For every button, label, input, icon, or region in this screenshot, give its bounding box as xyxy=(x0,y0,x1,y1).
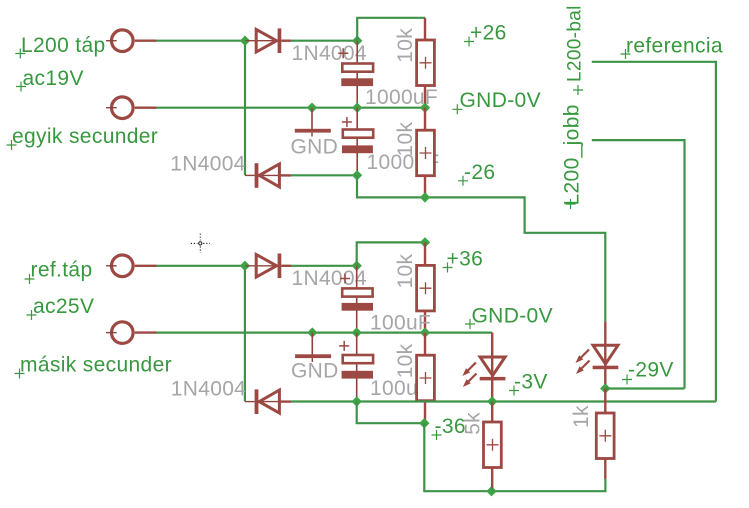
wire top rail (to R1) xyxy=(357,18,425,41)
wire row A right xyxy=(291,40,357,42)
node B1 junction (GND stem) xyxy=(307,103,317,113)
svg-text:10k: 10k xyxy=(394,122,417,157)
svg-text:1N4004: 1N4004 xyxy=(292,42,367,65)
resistor R1 pin top xyxy=(424,18,426,40)
label "ac19V" xyxy=(16,67,84,92)
label L200_jobb (vertical) xyxy=(561,104,584,209)
svg-text:L200 táp: L200 táp xyxy=(21,34,106,57)
connector X2 (egyik secunder) xyxy=(106,97,157,119)
resistor R3 pin bottom xyxy=(424,311,426,333)
resistor R4 pin bottom xyxy=(424,401,426,424)
label GND-0V (bottom) xyxy=(465,305,553,330)
svg-text:1k: 1k xyxy=(570,405,593,428)
resistor R2 pin bottom xyxy=(424,176,426,198)
svg-text:GND-0V: GND-0V xyxy=(472,305,553,328)
label +26 xyxy=(464,22,507,47)
wire L200_jobb net xyxy=(592,140,685,388)
node LED2 junction xyxy=(600,383,610,393)
wire top rail 2 (to R3) xyxy=(357,242,425,265)
capacitor C4 stem xyxy=(356,333,358,402)
node LED1 junction xyxy=(487,396,497,406)
wire row A2 right xyxy=(291,265,357,267)
wire LED2 junction to L200_jobb riser xyxy=(605,387,684,389)
node D junction (R2 bottom) xyxy=(420,192,430,202)
resistor R2 pin top xyxy=(424,108,426,131)
svg-text:1N4004: 1N4004 xyxy=(292,267,367,290)
led LED2 xyxy=(576,322,619,389)
wire -26 path to LED2 column xyxy=(357,175,605,321)
wire referencia xyxy=(592,62,716,402)
node rail2 junction xyxy=(420,237,430,247)
svg-text:ac25V: ac25V xyxy=(33,295,94,318)
wire row C2 (long, to referencia riser) xyxy=(291,400,716,402)
node C2 junction xyxy=(352,396,362,406)
node B4 junction (GND2 stem) xyxy=(307,327,317,337)
node C1 junction xyxy=(352,170,362,180)
svg-text:másik secunder: másik secunder xyxy=(20,353,172,376)
node A1 junction xyxy=(240,36,250,46)
svg-text:-3V: -3V xyxy=(514,371,548,394)
label -3V xyxy=(509,371,548,396)
capacitor C4 100uF xyxy=(339,341,373,379)
svg-text:referencia: referencia xyxy=(626,35,723,58)
capacitor C1 1000uF xyxy=(338,48,373,86)
capacitor C3 stem xyxy=(356,266,358,333)
node B5 junction (C3/C4) xyxy=(352,327,362,337)
label +36 xyxy=(443,248,484,273)
label -29V xyxy=(622,359,674,385)
ground GND2 (bottom half) xyxy=(295,333,331,362)
label "ref.táp" xyxy=(25,259,93,285)
ground GND (top half) xyxy=(295,108,331,137)
node D2 junction (R4 bottom) xyxy=(419,418,429,428)
node A2 junction xyxy=(352,36,362,46)
svg-text:GND: GND xyxy=(291,135,339,158)
svg-text:10k: 10k xyxy=(394,254,417,289)
svg-text:L200_jobb: L200_jobb xyxy=(561,104,584,205)
svg-text:5k: 5k xyxy=(462,412,485,435)
connector X1 (L200 táp) xyxy=(106,30,157,52)
svg-text:ac19V: ac19V xyxy=(23,67,84,90)
capacitor C3 100uF xyxy=(340,274,373,311)
svg-text:1N4004: 1N4004 xyxy=(170,152,245,175)
wire -36 drop xyxy=(357,402,425,424)
label -36 xyxy=(432,415,466,440)
label "L200 táp" xyxy=(15,34,105,59)
resistor R1 pin bottom xyxy=(424,86,426,108)
resistor R4 pin top xyxy=(424,333,426,356)
node A4 junction xyxy=(352,261,362,271)
resistor R3 pin top xyxy=(424,242,426,265)
capacitor C2 stem xyxy=(356,108,358,176)
diode D1 xyxy=(246,28,292,53)
wire row A2 left xyxy=(157,265,245,267)
wire left vertical (bottom half) xyxy=(244,266,246,402)
resistor R2 10k xyxy=(417,130,435,176)
diode D3 xyxy=(245,254,291,279)
connector X3 (ref.táp) xyxy=(106,255,157,277)
svg-text:GND-0V: GND-0V xyxy=(460,89,541,112)
node B2 junction (C1) xyxy=(352,103,362,113)
resistor R4 10k xyxy=(417,355,435,401)
wire row A left xyxy=(157,40,246,42)
resistor R6 1k xyxy=(596,389,614,480)
mouse crosshair cursor xyxy=(191,234,210,253)
svg-text:L200-bal: L200-bal xyxy=(565,5,586,82)
node B3 junction (R1/R2) xyxy=(420,103,430,113)
capacitor C1 stem xyxy=(356,41,358,108)
label L200-bal (vertical) xyxy=(565,5,586,95)
wire bottom rail xyxy=(424,423,605,491)
svg-text:1N4004: 1N4004 xyxy=(171,378,246,401)
svg-text:-26: -26 xyxy=(464,161,495,184)
capacitor C2 1000uF xyxy=(342,117,373,153)
node B6 junction (R3/R4) xyxy=(420,327,430,337)
svg-text:10k: 10k xyxy=(394,343,417,378)
svg-text:+26: +26 xyxy=(470,22,507,45)
diode D2 xyxy=(245,163,291,188)
node E junction (5k bottom) xyxy=(486,486,496,496)
label GND-0V (top) xyxy=(452,89,541,115)
wire left vertical (top half) xyxy=(244,41,246,176)
led LED1 xyxy=(462,333,505,402)
svg-text:egyik secunder: egyik secunder xyxy=(12,125,158,148)
label -26 xyxy=(458,161,495,186)
svg-text:10k: 10k xyxy=(394,28,417,63)
connector X4 (másik secunder) xyxy=(106,322,157,344)
label referencia xyxy=(621,35,723,60)
wire row B2 xyxy=(157,332,493,334)
resistor R5 5k xyxy=(484,402,502,492)
diode D4 xyxy=(245,389,291,414)
svg-text:GND: GND xyxy=(291,360,339,383)
resistor R3 10k xyxy=(417,265,435,311)
label "egyik secunder" xyxy=(7,125,159,150)
resistor R1 10k xyxy=(417,40,435,86)
wire row C xyxy=(291,174,357,176)
label "ac25V" xyxy=(27,295,95,320)
wire row B xyxy=(157,107,426,109)
node A3 junction xyxy=(240,261,250,271)
label "másik secunder" xyxy=(15,353,172,378)
svg-text:ref.táp: ref.táp xyxy=(31,259,93,282)
svg-text:-29V: -29V xyxy=(628,359,674,382)
